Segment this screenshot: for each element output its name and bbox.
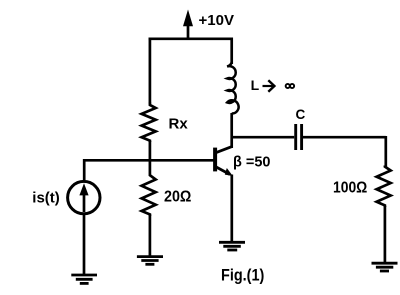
wire 20R to ground [149, 215, 152, 257]
svg-text:Rx: Rx [169, 116, 189, 133]
svg-text:Fig.(1): Fig.(1) [221, 265, 264, 284]
label arrow glyph [263, 80, 275, 91]
svg-text:+10V: +10V [199, 12, 234, 29]
wire top rail +10V node [149, 37, 233, 40]
wire capacitor to right corner [303, 136, 386, 139]
resistor Rx [142, 103, 156, 143]
resistor 20R [142, 159, 156, 216]
ground (current source) [71, 275, 97, 283]
transistor Q1 emitter diagonal with arrow [216, 167, 233, 176]
wire right vertical from rail to inductor [230, 38, 233, 65]
power supply +10V arrow [183, 10, 193, 40]
svg-text:is(t): is(t) [32, 190, 60, 207]
wire right vertical to 100R [384, 136, 387, 167]
wire 100R to ground [384, 206, 387, 263]
transistor Q1 collector diagonal [216, 147, 232, 153]
ground (20R) [137, 257, 163, 265]
inductor L coil [227, 63, 239, 114]
ground (100R) [372, 263, 398, 271]
svg-text:100Ω: 100Ω [333, 180, 367, 197]
wire Rx bottom to base node [149, 141, 152, 160]
capacitor C plates [296, 124, 302, 150]
svg-text:C: C [296, 107, 306, 122]
resistor 100R [377, 166, 391, 208]
svg-text:20Ω: 20Ω [164, 189, 192, 206]
wire collector node to capacitor [231, 136, 294, 139]
current source is(t) [68, 181, 100, 213]
wire emitter to ground [230, 175, 233, 242]
wire current source to ground [83, 214, 86, 275]
wire inductor bottom to collector node [230, 113, 233, 148]
wire left vertical from rail to Rx [149, 38, 152, 104]
transistor Q1 base bar [213, 148, 217, 172]
svg-text:β =50: β =50 [233, 155, 270, 171]
wire base horizontal [84, 159, 215, 162]
label infinity glyph [286, 84, 295, 88]
svg-text:L: L [251, 77, 260, 93]
ground (emitter) [219, 242, 245, 250]
wire corner current source top [83, 159, 86, 180]
